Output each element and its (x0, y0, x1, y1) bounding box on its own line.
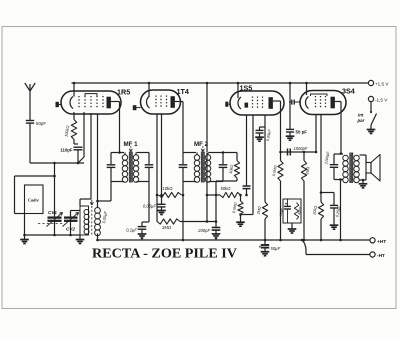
svg-text:3MΩ: 3MΩ (162, 225, 172, 230)
svg-text:RECTA - ZOE PILE IV: RECTA - ZOE PILE IV (92, 246, 237, 261)
svg-text:200pF: 200pF (197, 228, 210, 233)
svg-text:110pF: 110pF (60, 148, 73, 153)
svg-text:+: + (285, 201, 288, 206)
svg-text:CV1: CV1 (48, 210, 57, 215)
svg-text:3S4: 3S4 (342, 87, 355, 96)
svg-text:1R5: 1R5 (117, 88, 130, 97)
svg-text:Int: Int (358, 113, 364, 118)
svg-text:Cadre: Cadre (28, 198, 39, 203)
svg-text:-HT: -HT (377, 253, 385, 259)
svg-text:-1,5 V: -1,5 V (375, 98, 388, 103)
svg-text:50 pF: 50 pF (296, 130, 308, 135)
svg-text:50µF: 50µF (271, 246, 281, 251)
svg-text:+HT: +HT (377, 239, 386, 245)
svg-text:10kΩ: 10kΩ (163, 186, 174, 191)
svg-text:1S5: 1S5 (240, 84, 253, 93)
svg-text:par: par (357, 118, 365, 123)
svg-text:1T4: 1T4 (177, 87, 189, 96)
svg-text:50pF: 50pF (36, 121, 46, 126)
svg-text:CV2: CV2 (66, 227, 75, 232)
svg-text:1500pF: 1500pF (294, 146, 308, 151)
svg-text:0,05µF: 0,05µF (143, 204, 157, 209)
svg-text:50kΩ: 50kΩ (221, 186, 232, 191)
svg-text:+1,5 V: +1,5 V (375, 82, 389, 87)
svg-text:0,1µF: 0,1µF (126, 228, 137, 233)
svg-text:+: + (259, 244, 262, 249)
